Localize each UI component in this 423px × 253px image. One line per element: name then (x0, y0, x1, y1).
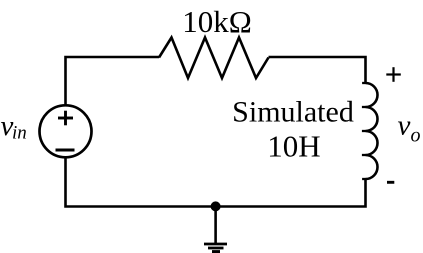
svg-text:o: o (411, 125, 421, 147)
svg-text:Simulated: Simulated (232, 96, 354, 129)
svg-text:in: in (12, 123, 27, 144)
svg-text:v: v (398, 110, 411, 142)
svg-text:10kΩ: 10kΩ (182, 4, 252, 39)
svg-text:10H: 10H (267, 129, 320, 164)
